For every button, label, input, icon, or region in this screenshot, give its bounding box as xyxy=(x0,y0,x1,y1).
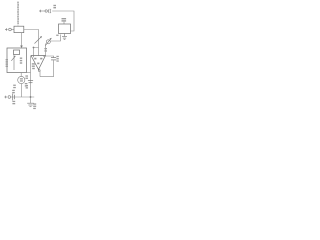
wire battery rail horizontal xyxy=(11,96,35,98)
wire jack to phones box xyxy=(52,11,74,31)
arrow into tuner xyxy=(20,46,23,49)
wire right input stub xyxy=(45,44,47,56)
wire antenna lead-in vertical xyxy=(17,3,19,26)
box T1 input transformer xyxy=(14,26,24,32)
transistor Q1 circle detector xyxy=(46,40,50,44)
terminal circle battery xyxy=(8,96,11,99)
wire meter to battery rail xyxy=(20,84,22,97)
op-amp U1 triangle xyxy=(31,56,46,70)
terminal circle input xyxy=(9,28,12,31)
capacitor C4 on battery rail xyxy=(13,94,15,101)
arrow variable slash on signal wire xyxy=(35,36,42,43)
pin stubs on U1 top edge xyxy=(34,56,45,58)
potentiometer inner vertical xyxy=(13,55,15,71)
label inside meter xyxy=(20,78,23,81)
capacitor C2 feedback plates xyxy=(51,58,56,60)
label right of capacitor xyxy=(56,56,58,62)
label below-left of phones box xyxy=(56,35,58,36)
terminal + output xyxy=(39,10,42,13)
node dot junction bias xyxy=(33,47,35,49)
label left of tuner (vertical text) xyxy=(6,59,8,67)
box tuner outline xyxy=(7,48,27,73)
node ANT vertical label column xyxy=(17,2,19,24)
meter M1 circle xyxy=(18,76,25,83)
terminal + input left xyxy=(5,28,8,31)
label below C4 xyxy=(12,101,15,105)
label above phones box xyxy=(62,18,67,22)
label right of meter xyxy=(25,83,28,87)
output bubble at apex xyxy=(38,70,40,72)
label right of ground xyxy=(33,103,36,109)
ground main xyxy=(27,103,34,107)
jack arcs xyxy=(47,9,50,13)
label left of detector stub xyxy=(44,48,47,52)
wire output stub xyxy=(42,10,46,12)
wire feedback bottom xyxy=(40,60,54,76)
arrow on detector xyxy=(45,38,51,46)
box phones xyxy=(59,24,71,34)
capacitor C3 on rail xyxy=(28,80,33,82)
wire detector to phones return xyxy=(50,35,60,42)
node junction rail dot xyxy=(30,96,32,98)
label left of switch xyxy=(13,85,16,89)
wire T1 bottom down to tuner box xyxy=(21,33,23,46)
label left of C3 xyxy=(25,75,28,88)
arrow potentiometer wiper xyxy=(11,56,15,61)
wire branch to U1 top-left xyxy=(34,48,39,56)
label above jack xyxy=(53,5,56,9)
wire T1 output to signal line xyxy=(24,30,39,56)
box small inner cell xyxy=(14,50,20,55)
pin number labels inside U1 xyxy=(34,58,42,64)
label right inside tuner xyxy=(20,58,22,64)
wire switch branch from tuner bottom xyxy=(20,73,22,77)
ground below phones box xyxy=(62,34,67,40)
label above C4 xyxy=(12,90,15,94)
label inside U1 xyxy=(32,63,36,69)
wire terminal to box T1 xyxy=(11,29,14,31)
terminal + battery xyxy=(4,96,7,99)
wire ground rail vertical mid xyxy=(30,56,32,104)
wire tuner bottom to rail xyxy=(27,72,31,74)
wire cap to U1 right vertex xyxy=(46,56,54,58)
jack circle 1 xyxy=(45,10,47,12)
wire U1 output down xyxy=(39,70,41,77)
wire stub into phones box top xyxy=(63,22,65,24)
